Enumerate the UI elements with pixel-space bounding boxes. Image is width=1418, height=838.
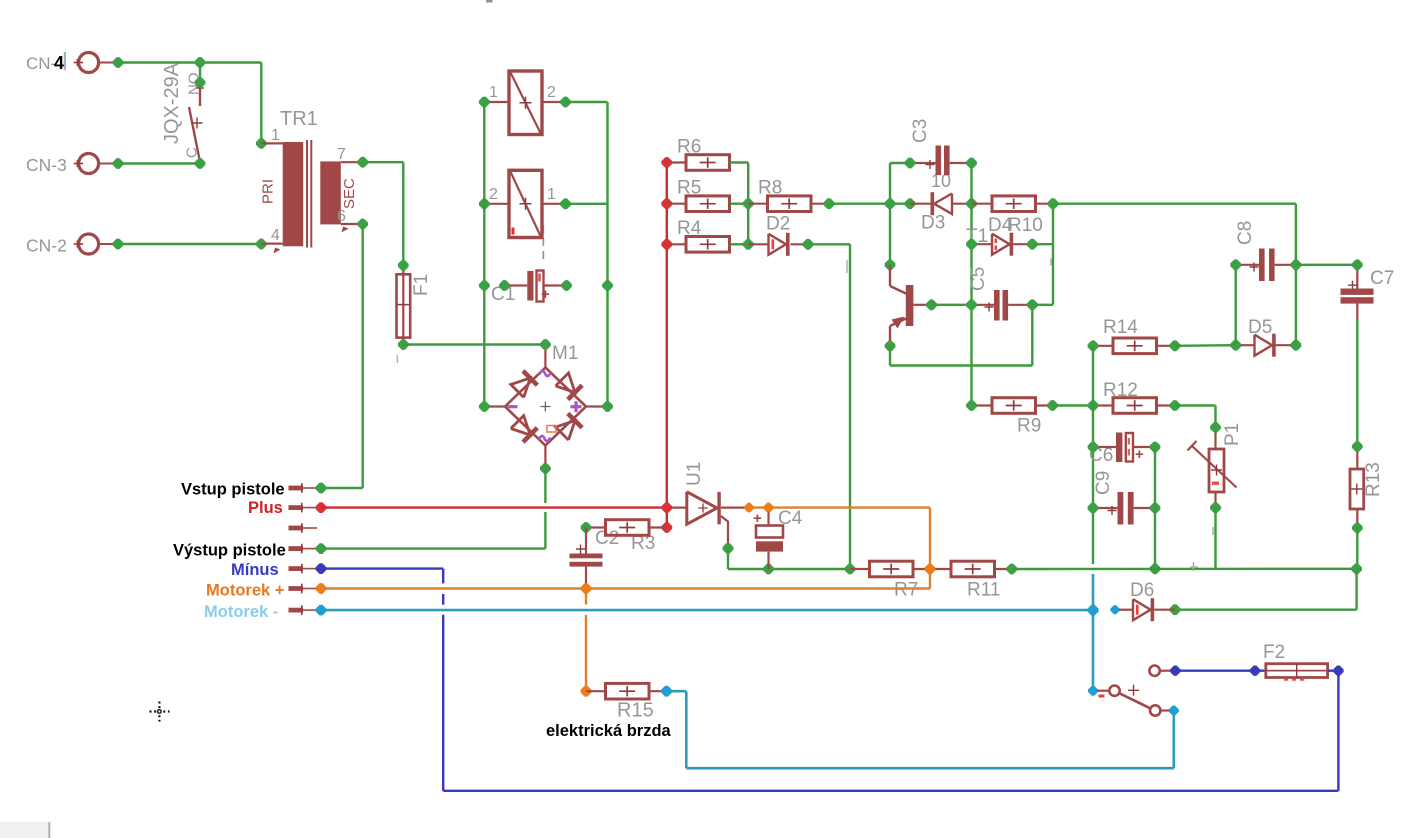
wire C6/C9 right column: [1154, 447, 1156, 569]
junction C8 right: [1291, 259, 1302, 270]
port Plus pin: [289, 505, 304, 510]
junction M1 right: [602, 401, 613, 412]
svg-text:F2: F2: [1263, 642, 1285, 663]
junction D4 cathode: [1027, 239, 1038, 250]
junction D3 cathode tee: [885, 198, 896, 209]
svg-text:TR1: TR1: [280, 108, 318, 130]
wire D4 cathode to jog: [1032, 243, 1053, 245]
junction CN-4/NO tee: [195, 57, 206, 68]
transformer TR1 pin 6: [341, 223, 360, 225]
junction R4 right: [743, 239, 754, 250]
transformer TR1 primary winding PRI: [283, 142, 304, 246]
junction relay NO pin: [195, 77, 206, 88]
svg-text:elektrická brzda: elektrická brzda: [546, 722, 672, 740]
transformer polarity mark secondary: [342, 227, 349, 233]
junction M1 top: [540, 339, 551, 350]
svg-text:+: +: [541, 286, 550, 303]
transformer polarity mark primary: [274, 248, 281, 254]
junction relay C pin: [195, 158, 206, 169]
svg-text:1: 1: [489, 84, 498, 101]
junction C9 right: [1150, 503, 1161, 514]
junction T1 collector wire: [885, 259, 896, 270]
wire U1 gate down: [727, 548, 729, 569]
svg-text:P1: P1: [1222, 423, 1243, 446]
junction CN-2 stub: [113, 239, 124, 250]
wire R6 right column down: [747, 163, 749, 245]
bridge rectifier M1 outline: [505, 368, 586, 446]
relay coil K1-B: [509, 170, 542, 237]
svg-text:2: 2: [547, 84, 556, 101]
wire F1 bottom to bridge M1: [403, 343, 545, 345]
resistor R15: [586, 690, 606, 692]
wire R8 to D3: [829, 202, 910, 204]
junction D5 anode: [1230, 340, 1241, 351]
junction C5 right: [1027, 299, 1038, 310]
svg-text:F1: F1: [411, 274, 432, 296]
junction R13 bottom: [1352, 523, 1363, 534]
tick mark near D4: [1050, 259, 1052, 266]
bridge M1 pins: [544, 345, 546, 368]
wire left column A: [483, 102, 485, 407]
wire top rail right: [1053, 202, 1296, 204]
wire cathode rail y569: [728, 568, 850, 570]
junction C3 left: [905, 158, 916, 169]
junction C6C9 column bottom: [1150, 563, 1161, 574]
wire C7 to R13: [1356, 320, 1358, 447]
capacitor C6: [1093, 446, 1116, 448]
svg-text:U1: U1: [684, 462, 705, 486]
wire TR1 pin7 to fuse F1: [363, 161, 404, 163]
junction U1 gate: [723, 543, 734, 554]
fuse F2: [1266, 664, 1328, 678]
wire R11 right rail: [1012, 568, 1357, 571]
svg-text:Vstup pistole: Vstup pistole: [181, 481, 285, 499]
svg-text:1: 1: [271, 127, 280, 144]
connector CN-4 pin circle: [79, 53, 99, 73]
connector CN-3 pin circle: [79, 154, 99, 174]
svg-text:R11: R11: [967, 580, 1000, 601]
scrollbar corner: [0, 822, 50, 838]
gray mark near P1 value 2: [1212, 527, 1214, 535]
port Minus pin: [289, 566, 304, 571]
svg-text:Motorek -: Motorek -: [204, 603, 278, 621]
junction rail right corner: [1351, 563, 1362, 574]
junction R12 left: [1088, 400, 1099, 411]
port Motorek plus pin: [289, 586, 304, 591]
junction R7 left: [845, 564, 856, 575]
wire R12 to P1: [1175, 404, 1216, 406]
svg-text:SEC: SEC: [341, 178, 358, 209]
junction CN-3 stub: [113, 158, 124, 169]
wire Plus horizontal: [321, 506, 667, 508]
fuse F2 value marks: [1284, 679, 1288, 681]
connector CN-2 pin circle: [79, 234, 99, 254]
wire T1 emitter rail: [889, 346, 891, 366]
junction C1 right pin: [561, 280, 572, 291]
potentiometer P1: [1214, 427, 1216, 449]
wire C5 right jog to D4: [1032, 304, 1053, 306]
svg-text:M1: M1: [552, 343, 578, 364]
diode D6: [1119, 609, 1133, 611]
junction M1 bottom: [540, 463, 551, 474]
wire column x971: [970, 163, 972, 406]
bridge M1 diode top-left: [511, 378, 530, 397]
diode D5: [1236, 344, 1255, 346]
junction Plus U1 anode: [661, 502, 672, 513]
junction D3 cathode pin: [905, 198, 916, 209]
bridge M1 plus mark: [571, 405, 582, 408]
wire C8 right to C7: [1296, 264, 1357, 266]
port Vstup pistole pin: [289, 486, 304, 491]
junction R7 R11 orange: [925, 564, 936, 575]
junction C4 bottom: [763, 564, 774, 575]
wire CN-3 to relay C: [118, 162, 200, 164]
port Motorek minus pin: [289, 608, 304, 613]
svg-text:D2: D2: [766, 214, 790, 235]
junction Plus: [316, 502, 327, 513]
transformer TR1 pin 7: [341, 161, 360, 163]
junction C6 right: [1150, 442, 1161, 453]
svg-text:+: +: [1135, 446, 1144, 463]
bridge M1 origin cross: [540, 402, 550, 412]
svg-text:D3: D3: [921, 213, 945, 234]
svg-text:CN-: CN-: [26, 54, 56, 73]
junction coil K1-A pin1: [479, 97, 490, 108]
wire D2 to R7 column: [808, 243, 850, 245]
relay contact NO stub: [199, 84, 201, 106]
svg-text:D6: D6: [1130, 580, 1154, 601]
junction R14 left: [1088, 340, 1099, 351]
bridge M1 diode bottom-left: [511, 416, 530, 435]
wire R14 to D5: [1175, 344, 1236, 347]
junction Plus R4: [661, 239, 672, 250]
svg-text:D5: D5: [1248, 317, 1272, 338]
junction Plus R5: [661, 198, 672, 209]
junction C1 right column: [602, 280, 613, 291]
transformer TR1 secondary winding SEC: [320, 161, 341, 224]
junction D4 anode: [966, 239, 977, 250]
junction T1 base: [926, 299, 937, 310]
junction switch throw: [1169, 706, 1179, 716]
capacitor C1: [505, 284, 528, 286]
wire coil K1-A pin2 to right column: [566, 101, 608, 103]
capacitor C8: [1236, 264, 1259, 266]
junction D6 anode: [1110, 605, 1119, 614]
relay coil K1-B origin mark: [512, 228, 515, 235]
relay coil K1-A: [509, 71, 542, 135]
wire orange down to R15: [585, 592, 587, 605]
junction C2 bottom orange: [581, 583, 592, 594]
junction C1 left pin: [499, 280, 510, 291]
svg-text:2: 2: [489, 186, 498, 203]
svg-text:1: 1: [547, 186, 556, 203]
junction C1 left column: [479, 280, 490, 291]
wire F2 left: [1175, 670, 1266, 672]
svg-text:4: 4: [271, 227, 280, 244]
wire P1 bottom down: [1214, 508, 1216, 569]
svg-text:6: 6: [337, 208, 346, 225]
bridge M1 minus mark: [508, 405, 518, 408]
junction R15 right: [661, 686, 672, 697]
junction Plus R3: [661, 522, 672, 533]
wire TR1 pin6 down to Vstup pistole: [362, 224, 364, 488]
wire CN-2 to TR1 pin4: [118, 243, 261, 245]
svg-text:4: 4: [54, 53, 64, 73]
relay coil-contact dashed link: [542, 225, 544, 259]
svg-text:C8: C8: [1235, 221, 1256, 245]
bridge M1 diode top-right: [556, 373, 575, 392]
svg-text:C7: C7: [1370, 268, 1394, 289]
junction C6 left: [1088, 442, 1099, 453]
wire Motorek+ vertical: [929, 508, 931, 589]
svg-text:C5: C5: [968, 267, 989, 291]
svg-text:R14: R14: [1103, 317, 1138, 338]
junction D5 cathode: [1291, 340, 1302, 351]
resistor R3: [648, 526, 667, 528]
junction T1 emitter: [885, 341, 896, 352]
wire M1 bottom to Vystup pistole: [544, 469, 546, 504]
junction R11 right: [1006, 564, 1017, 575]
gray mark near D2 value: [846, 260, 848, 273]
junction switch common: [1088, 686, 1098, 696]
svg-text:7: 7: [337, 146, 346, 163]
junction F1 bottom: [398, 339, 409, 350]
junction D3 anode: [966, 198, 977, 209]
junction F1 top: [398, 260, 409, 271]
wire Motorek- horizontal: [321, 609, 1093, 612]
junction R13 top: [1352, 441, 1363, 452]
wire D5 cathode to C8 right: [1295, 265, 1297, 345]
junction TR1 pin7: [357, 157, 368, 168]
svg-text:R13: R13: [1363, 462, 1384, 497]
junction Motorek minus: [316, 605, 327, 616]
svg-text:C3: C3: [910, 119, 931, 143]
wire Minus vertical: [321, 567, 443, 569]
junction R9 right: [1047, 400, 1058, 411]
wire rail to D6: [1355, 569, 1357, 610]
capacitor C5: [972, 304, 995, 306]
wire coil K1-B pin right to right column: [566, 203, 608, 205]
relay contact blade: [189, 107, 200, 162]
wire T1 base to C5: [932, 304, 972, 306]
wire C3 left loop: [890, 162, 910, 164]
transformer TR1 pin 1: [261, 142, 282, 144]
junction CN-4 stub: [113, 57, 124, 68]
junction R9 left: [966, 400, 977, 411]
capacitor C9: [1093, 507, 1118, 509]
wire CN-4 to relay NO and TR1 pin1: [118, 61, 261, 63]
svg-text:R7: R7: [894, 580, 918, 601]
junction Vystup pistole: [316, 543, 327, 554]
gray mark under F1: [396, 355, 398, 363]
capacitor C3: [910, 162, 936, 164]
svg-text:JQX-29A: JQX-29A: [161, 62, 183, 144]
junction U1 cathode: [744, 503, 754, 513]
wire right column B: [606, 102, 608, 407]
svg-text:+: +: [753, 510, 762, 527]
gray mark near P1 value 1: [1190, 566, 1198, 568]
svg-text:C2: C2: [595, 528, 619, 549]
svg-text:Výstup pistole: Výstup pistole: [173, 542, 286, 560]
junction P1 top: [1210, 422, 1221, 433]
wire Plus vertical column: [666, 163, 668, 528]
junction C4 top: [764, 503, 774, 513]
junction C3 right: [966, 158, 977, 169]
junction TR1 pin4: [256, 239, 267, 250]
svg-text:Motorek +: Motorek +: [206, 582, 284, 600]
svg-text:R10: R10: [1008, 215, 1043, 236]
junction F2 pin left: [1250, 666, 1260, 676]
wire F2 right down: [1328, 670, 1339, 672]
svg-text:CN-2: CN-2: [26, 236, 67, 256]
diode D4: [972, 243, 993, 245]
wire D5 anode to C8: [1234, 265, 1236, 345]
junction Motorek plus: [316, 583, 327, 594]
resistor R13: [1356, 447, 1358, 470]
bridge M1 AC mark top: [540, 371, 551, 376]
svg-text:Plus: Plus: [248, 499, 283, 517]
unconnected pin: [289, 526, 304, 531]
thyristor U1: [669, 507, 688, 509]
wire switch to brake loop: [1173, 711, 1176, 769]
wire R9 to R12: [1053, 404, 1094, 406]
capacitor C7: [1356, 265, 1358, 289]
bridge M1 red mark: [547, 426, 556, 433]
wire Motorek+ top horizontal: [749, 506, 930, 508]
top edge gray mark: [486, 0, 493, 3]
junction D2 cathode: [803, 239, 814, 250]
junction coil K1-A pin2: [560, 97, 571, 108]
junction coil K1-B pin right: [560, 198, 571, 209]
junction coil K1-B pin left: [479, 198, 490, 209]
junction R10 right: [1048, 198, 1059, 209]
capacitor C2: [585, 528, 587, 554]
junction D6 cathode: [1170, 604, 1181, 615]
transformer TR1 pin 4: [261, 243, 282, 245]
junction R5 right: [743, 198, 754, 209]
junction R15 left: [581, 686, 592, 697]
junction C2 top: [581, 522, 592, 533]
wire column x1093: [1092, 346, 1094, 564]
junction Plus R6: [661, 157, 672, 168]
wire Motorek- vertical to switch: [1092, 574, 1095, 691]
junction TR1 pin6: [357, 219, 368, 230]
fuse F1 body: [402, 265, 404, 344]
junction R14 right: [1170, 340, 1181, 351]
switch F2 contact: [1149, 666, 1159, 676]
junction C8 left: [1230, 259, 1241, 270]
junction M1 left: [479, 401, 490, 412]
bridge M1 AC mark bottom: [539, 436, 550, 441]
crosshair cursor: [150, 702, 170, 722]
junction F2 right: [1333, 666, 1343, 676]
junction Minus: [316, 563, 327, 574]
wire R13 bottom to rail: [1356, 528, 1358, 569]
capacitor C4: [767, 508, 769, 526]
junction C5 left: [966, 299, 977, 310]
junction C9 left: [1088, 503, 1099, 514]
junction Motorek- tee: [1087, 605, 1098, 616]
port Vystup pistole pin: [289, 546, 304, 551]
svg-text:Mínus: Mínus: [231, 561, 279, 579]
bridge M1 diode bottom-right: [556, 421, 575, 440]
transformer TR1 core: [306, 140, 308, 248]
junction TR1 pin1: [256, 138, 267, 149]
junction C7 top: [1352, 259, 1363, 270]
junction R12 right: [1170, 400, 1181, 411]
junction F2 wire left: [1170, 666, 1180, 676]
wire Motorek+ horizontal: [321, 587, 930, 589]
switch S1 pin: [1097, 690, 1109, 692]
switch S1: [1109, 686, 1119, 696]
wire Minus bottom: [443, 790, 1338, 792]
relay contact origin cross: [192, 118, 203, 129]
svg-text:CN-3: CN-3: [26, 155, 67, 175]
transistor T1: [889, 265, 891, 286]
svg-text:PRI: PRI: [260, 179, 277, 204]
junction Vstup pistole: [316, 483, 327, 494]
svg-text:C9: C9: [1093, 471, 1114, 495]
junction P1 bottom: [1210, 502, 1221, 513]
svg-text:R15: R15: [617, 700, 654, 722]
junction R8 right: [824, 198, 835, 209]
svg-text:R9: R9: [1017, 416, 1041, 437]
